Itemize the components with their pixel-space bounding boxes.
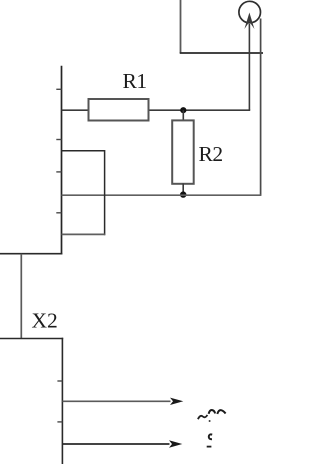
bottom box top edge <box>0 338 63 340</box>
label fragment dot <box>209 420 211 422</box>
label B fragment dash <box>207 446 212 448</box>
wire R2 top stub <box>182 110 184 121</box>
bus tick 1 <box>56 88 61 90</box>
wire top box bottom horizontal <box>180 52 263 54</box>
node junction bottom <box>180 191 186 197</box>
wire top box left vertical <box>180 0 182 53</box>
resistor R1 <box>89 99 149 121</box>
block box on bus top edge <box>62 150 105 152</box>
wire bus bottom to left edge <box>0 253 62 255</box>
wire output arrow 1 <box>62 400 170 402</box>
arrowhead 1 <box>170 398 183 405</box>
node junction top <box>180 107 186 113</box>
wire X2 vertical <box>20 254 22 339</box>
svg-text:X2: X2 <box>32 309 58 333</box>
block box bottom edge <box>62 233 106 235</box>
arrowhead into meter <box>244 13 254 30</box>
label digit 2 fragment b <box>217 410 225 414</box>
bus tick 4 <box>56 212 61 214</box>
label B fragment c-shape <box>209 434 212 439</box>
arrowhead 2 <box>169 440 182 447</box>
bus tick 2 <box>56 139 61 141</box>
wire output arrow 2 <box>62 443 169 445</box>
bottom box right edge <box>61 338 63 464</box>
block box right edge <box>104 150 106 235</box>
wire arrow stem from R1 node up to meter <box>248 24 250 110</box>
edge tick 2 <box>57 421 62 423</box>
edge tick 1 <box>57 380 62 382</box>
svg-text:R1: R1 <box>123 69 147 93</box>
wire meter right side down <box>260 19 262 196</box>
wire bus to R1 <box>62 109 90 111</box>
meter circle P1 <box>239 1 261 23</box>
resistor R2 <box>172 120 194 183</box>
wire R2 bottom stub <box>182 184 184 196</box>
bus tick 3 <box>56 171 61 173</box>
label digit 2 fragment a <box>209 410 216 414</box>
wire R1 output horizontal to arrow stem <box>148 109 250 111</box>
vertical bus line <box>61 66 63 255</box>
wire bottom rail <box>62 194 262 196</box>
label ~220 fragment tilde <box>198 415 208 419</box>
svg-text:R2: R2 <box>199 142 223 166</box>
